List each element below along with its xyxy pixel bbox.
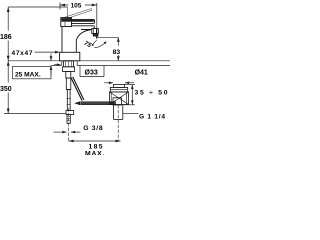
svg-text:Ø33: Ø33 (85, 70, 98, 77)
svg-text:G 3/8: G 3/8 (83, 125, 103, 132)
svg-text:105: 105 (71, 2, 82, 9)
svg-text:MAX.: MAX. (85, 150, 105, 155)
svg-text:47x47: 47x47 (12, 50, 33, 57)
svg-text:G 1 1/4: G 1 1/4 (139, 114, 165, 121)
svg-text:35 ÷ 50: 35 ÷ 50 (135, 90, 168, 97)
svg-text:25 MAX.: 25 MAX. (15, 71, 41, 78)
svg-text:350: 350 (0, 86, 12, 93)
svg-text:83: 83 (113, 49, 121, 56)
svg-text:Ø41: Ø41 (135, 70, 148, 77)
svg-text:186: 186 (0, 34, 12, 41)
